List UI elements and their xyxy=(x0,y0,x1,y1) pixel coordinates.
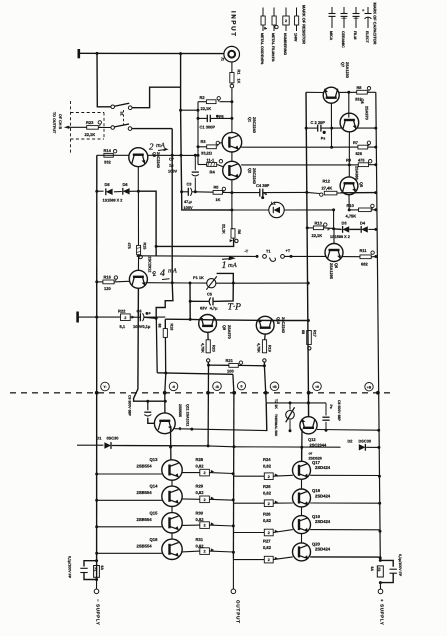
probe P5 on C1 xyxy=(216,115,219,118)
wire Q3 emitter column xyxy=(137,167,139,192)
svg-text:METAL OXIDE±5%: METAL OXIDE±5% xyxy=(260,33,264,65)
svg-text:or: or xyxy=(309,451,313,455)
chassis tick terminal xyxy=(78,49,81,58)
svg-text:R11: R11 xyxy=(360,248,368,253)
svg-text:2SA970: 2SA970 xyxy=(227,325,231,339)
svg-text:R7: R7 xyxy=(353,140,358,145)
wire base row y155 xyxy=(104,154,129,156)
svg-text:+T: +T xyxy=(286,248,291,253)
svg-text:2SD424: 2SD424 xyxy=(315,493,331,498)
trimmer P1 1K xyxy=(207,279,216,288)
resistor R17 68 xyxy=(307,331,312,345)
svg-text:D2: D2 xyxy=(348,439,354,444)
rail left Y- xyxy=(96,155,98,580)
wire Q2 emitter down xyxy=(231,180,233,229)
svg-text:P5: P5 xyxy=(219,115,224,119)
svg-text:C7: C7 xyxy=(169,157,174,162)
svg-text:D1: D1 xyxy=(97,436,103,441)
wire P1 wiper link xyxy=(217,273,234,283)
transistor Q3 2SC2240 xyxy=(129,148,148,167)
resistor R3 33.2 xyxy=(198,146,207,148)
resistor R4 xyxy=(198,164,207,166)
wire Q12 emitter row to rail B xyxy=(317,429,379,432)
svg-text:6A: 6A xyxy=(100,566,104,571)
node O xyxy=(232,391,236,395)
svg-text:R14: R14 xyxy=(104,148,112,153)
svg-text:R4: R4 xyxy=(210,170,216,175)
wire R2 to input column xyxy=(220,101,232,103)
switch S1 upper pole xyxy=(111,105,115,109)
transistor Q16 2SB554 xyxy=(162,539,182,559)
svg-text:1S1588 X 2: 1S1588 X 2 xyxy=(103,199,123,203)
svg-text:2: 2 xyxy=(204,524,206,528)
wire Q16 base xyxy=(97,552,162,554)
wire P1 row xyxy=(190,282,207,284)
dashed box remote connection xyxy=(70,101,72,155)
diode D1 DSC30 xyxy=(104,442,111,448)
svg-text:R17: R17 xyxy=(313,330,317,337)
wire Q19 to rail B xyxy=(273,530,293,533)
rail output O xyxy=(232,393,235,559)
svg-text:Q3: Q3 xyxy=(152,152,156,157)
svg-text:CERAMIC: CERAMIC xyxy=(341,31,345,48)
svg-text:R25: R25 xyxy=(263,484,271,489)
probe circle below R15 xyxy=(139,255,142,258)
wire switch upper to input rail xyxy=(132,87,181,108)
svg-text:R1: R1 xyxy=(236,70,240,75)
wire R3 to Q1 base xyxy=(219,142,222,145)
wire RV corner to O node xyxy=(233,374,234,393)
svg-text:NUMBERING: NUMBERING xyxy=(283,33,287,55)
svg-text:4,75K: 4,75K xyxy=(200,343,204,353)
svg-text:2SC2240: 2SC2240 xyxy=(281,317,285,333)
svg-text:FILM: FILM xyxy=(353,31,357,39)
svg-text:1/4W: 1/4W xyxy=(294,33,298,42)
svg-text:Q16: Q16 xyxy=(150,537,159,542)
svg-text:Y-: Y- xyxy=(103,385,106,389)
svg-text:Ps: Ps xyxy=(321,137,326,141)
svg-text:2SC2240: 2SC2240 xyxy=(252,117,256,133)
legend capacitor symbol elect xyxy=(367,7,369,14)
resistor R9 475 xyxy=(349,164,358,166)
svg-text:-T: -T xyxy=(245,249,249,254)
transistor Q5 2SA966 xyxy=(340,177,358,195)
terminal minus supply xyxy=(94,589,99,594)
svg-text:C 2 20P: C 2 20P xyxy=(311,120,326,125)
wire D6 to Q3 column xyxy=(130,190,139,192)
svg-text:63V: 63V xyxy=(200,306,207,311)
wire Q7 base column xyxy=(330,103,332,147)
wire Q6 to R11 xyxy=(342,256,360,258)
svg-text:R18: R18 xyxy=(169,324,173,331)
svg-text:R3: R3 xyxy=(201,139,207,144)
svg-text:C8 500V 68P: C8 500V 68P xyxy=(337,400,341,421)
wire R4 to Q2 base xyxy=(217,165,223,167)
svg-text:Q6: Q6 xyxy=(334,263,338,268)
svg-text:Q9: Q9 xyxy=(222,325,226,330)
legend capacitor symbol mica xyxy=(331,7,333,14)
svg-text:OF CH B: OF CH B xyxy=(58,114,62,129)
svg-text:2SB554: 2SB554 xyxy=(137,517,153,522)
svg-text:100: 100 xyxy=(227,369,234,374)
transistor Q19 2SD424 xyxy=(293,516,311,534)
svg-text:2: 2 xyxy=(268,558,270,562)
svg-text:6A: 6A xyxy=(370,567,374,572)
wire left bank column xyxy=(171,460,173,480)
wire Q14 base xyxy=(97,499,162,501)
wire -0 node drop xyxy=(165,373,166,393)
svg-text:R30: R30 xyxy=(196,510,204,515)
svg-text:INPUT: INPUT xyxy=(230,11,237,38)
junction top wire to input rail xyxy=(179,52,182,55)
svg-text:R19: R19 xyxy=(268,345,272,352)
svg-text:Ps: Ps xyxy=(329,405,333,409)
svg-text:C1 300P: C1 300P xyxy=(200,125,216,130)
wire top input return xyxy=(80,52,224,54)
svg-text:11-1: 11-1 xyxy=(207,157,216,162)
svg-text:+B: +B xyxy=(367,385,372,389)
svg-text:R6: R6 xyxy=(237,230,241,235)
wire R2 row xyxy=(198,101,207,103)
junction C1 row xyxy=(230,117,233,120)
rail switch bias column xyxy=(171,129,173,283)
capacitor C9 68P 500V xyxy=(147,401,149,410)
transistor Q1 2SC2240 xyxy=(222,132,242,152)
svg-text:Q11 2SA1011: Q11 2SA1011 xyxy=(186,404,190,426)
svg-text:68: 68 xyxy=(158,324,162,328)
svg-text:2: 2 xyxy=(124,316,126,320)
svg-text:P1 1K: P1 1K xyxy=(193,275,204,280)
svg-text:R29: R29 xyxy=(196,484,204,489)
transistor Q8 2SA970 xyxy=(340,113,359,132)
wire P1 row to rail A xyxy=(216,282,308,284)
svg-text:2SC2912: 2SC2912 xyxy=(148,257,152,273)
node +B right xyxy=(376,391,380,395)
svg-text:22,1K: 22,1K xyxy=(312,233,323,238)
svg-text:825: 825 xyxy=(356,151,363,156)
svg-text:475: 475 xyxy=(358,158,365,163)
svg-text:L1: L1 xyxy=(271,201,276,206)
svg-text:D6: D6 xyxy=(123,182,129,187)
wire Q8 base column xyxy=(348,92,350,117)
svg-text:MARK OF RESISTOR: MARK OF RESISTOR xyxy=(302,5,307,44)
svg-text:R20: R20 xyxy=(211,345,215,352)
svg-text:22,1K: 22,1K xyxy=(201,106,212,111)
transistor Q20 2SD424 xyxy=(293,543,311,561)
terminal plus supply xyxy=(378,589,383,594)
svg-text:120: 120 xyxy=(104,286,111,291)
wire F2 to terminal xyxy=(379,583,381,590)
svg-text:C3: C3 xyxy=(187,182,193,187)
channel separator dashed xyxy=(10,392,393,394)
svg-text:MICA: MICA xyxy=(329,31,333,41)
svg-text:R16: R16 xyxy=(104,275,112,280)
resistor R1 1K xyxy=(230,73,234,83)
svg-text:Q7: Q7 xyxy=(341,62,345,67)
svg-text:J1: J1 xyxy=(221,57,225,61)
svg-text:0,82: 0,82 xyxy=(196,490,205,495)
resistor R11 682 xyxy=(360,255,371,259)
svg-text:33,2Ω: 33,2Ω xyxy=(201,150,213,155)
svg-text:R9: R9 xyxy=(346,158,352,163)
wire R15 to Q4 xyxy=(137,255,139,270)
node +0 xyxy=(307,391,311,395)
svg-text:R2: R2 xyxy=(200,95,206,100)
transistor Q18 2SD424 xyxy=(293,489,311,507)
svg-text:4,75K: 4,75K xyxy=(346,214,357,219)
probe circle below R1 xyxy=(231,83,233,84)
legend resistor symbol 1/4W xyxy=(296,8,298,17)
svg-text:R15: R15 xyxy=(143,243,147,250)
svg-text:-B: -B xyxy=(215,385,219,389)
wire right bank column xyxy=(301,447,303,461)
svg-text:22,1K: 22,1K xyxy=(85,132,96,137)
wire bridge input rail to feedback rail xyxy=(181,109,198,111)
svg-text:68: 68 xyxy=(301,330,305,334)
svg-text:0,82: 0,82 xyxy=(263,545,272,550)
svg-text:100V: 100V xyxy=(168,169,177,174)
resistor R15 475 xyxy=(137,191,139,245)
wire Q17 to rail B xyxy=(273,474,293,477)
wire R1 to Q1 xyxy=(231,88,233,133)
svg-text:0,1μ/100V FP: 0,1μ/100V FP xyxy=(68,556,72,579)
svg-text:475: 475 xyxy=(127,243,131,249)
rail +B node xyxy=(264,366,266,403)
svg-text:+B: +B xyxy=(272,385,277,389)
wire L1 to R10 row xyxy=(284,209,333,211)
wire Q20 to rail B xyxy=(273,557,293,560)
wire Q5 emitter right xyxy=(341,192,376,194)
wire R12 to Q5 xyxy=(337,192,341,194)
switch link dashed xyxy=(123,110,125,125)
legend resistor symbol metal-film xyxy=(273,8,275,17)
ground bar xyxy=(76,312,79,323)
svg-text:R28: R28 xyxy=(196,457,204,462)
wire Q11 top column xyxy=(164,393,166,413)
wire R30 to output rail xyxy=(209,524,233,527)
svg-text:0,82: 0,82 xyxy=(196,464,205,469)
wire Q9 row xyxy=(165,319,308,320)
svg-text:Q8: Q8 xyxy=(360,99,364,104)
svg-text:THERMAL 58K: THERMAL 58K xyxy=(274,414,278,437)
wire Q5 bottom to R10 row xyxy=(348,195,350,210)
svg-text:MARK OF CAPACITOR: MARK OF CAPACITOR xyxy=(373,3,378,45)
svg-text:2SC2240: 2SC2240 xyxy=(156,152,160,168)
svg-text:T·P: T·P xyxy=(228,303,242,313)
wire switch lower to bias column xyxy=(132,128,172,130)
transistor Q6 2SA1295 xyxy=(325,244,343,262)
svg-text:682: 682 xyxy=(361,262,368,267)
svg-text:R31: R31 xyxy=(196,537,204,542)
svg-text:27,4K: 27,4K xyxy=(322,186,333,191)
wire +B to T2 box xyxy=(265,403,268,431)
svg-text:0SC30: 0SC30 xyxy=(107,436,119,441)
svg-text:R12: R12 xyxy=(323,179,331,184)
wire R7 row Q1 collector xyxy=(241,146,306,148)
svg-text:METAL FILM±1%: METAL FILM±1% xyxy=(271,33,275,62)
terminal output xyxy=(231,589,236,594)
svg-text:2SA966: 2SA966 xyxy=(355,166,359,180)
resistor R13 22.1K xyxy=(306,226,309,229)
svg-text:2: 2 xyxy=(268,475,270,479)
svg-text:2SD424: 2SD424 xyxy=(315,547,331,552)
svg-text:2SB554: 2SB554 xyxy=(137,464,153,469)
node -0 xyxy=(163,391,167,395)
legend resistor symbol numbering xyxy=(285,8,287,17)
resistor R19 4.75K xyxy=(264,334,267,340)
wire bias column down xyxy=(155,318,158,373)
wire jack to R1 xyxy=(231,62,233,73)
resistor R6 22.1K xyxy=(231,229,235,238)
inductor L1 xyxy=(232,209,269,211)
probe P5 on C2 xyxy=(323,131,326,134)
transistor Q15 2SB554 xyxy=(162,513,182,533)
node Y- xyxy=(95,391,99,395)
wire ground row xyxy=(78,316,121,318)
svg-text:2: 2 xyxy=(204,498,206,502)
svg-text:0,82: 0,82 xyxy=(263,464,272,469)
svg-text:100V: 100V xyxy=(184,205,193,210)
transistor Q10 2SC2240 xyxy=(256,316,274,334)
svg-text:0,1μ/100V FP: 0,1μ/100V FP xyxy=(398,554,402,577)
resistor R21 100 xyxy=(207,364,210,367)
resistor R10 4.75K xyxy=(332,208,335,211)
svg-text:mA: mA xyxy=(228,262,237,269)
svg-text:2SB554: 2SB554 xyxy=(137,544,153,549)
svg-text:2: 2 xyxy=(204,471,206,475)
svg-text:1: 1 xyxy=(222,260,227,271)
thermal breaker T1 xyxy=(256,255,259,258)
resistor R20 4.75K xyxy=(207,332,209,340)
input rail upper xyxy=(180,54,182,111)
junction R2 row xyxy=(230,100,233,103)
capacitor C8 68P 500V xyxy=(325,403,327,416)
probe circle R6 bottom xyxy=(230,239,234,242)
svg-text:S1: S1 xyxy=(119,112,123,116)
wire R23 arrow xyxy=(64,126,70,129)
transistor Q9 2SA970 xyxy=(199,315,217,333)
wire output to terminal xyxy=(232,559,234,589)
resistor R8 332 xyxy=(357,90,368,94)
resistor R16 120 xyxy=(95,280,98,283)
svg-text:2: 2 xyxy=(268,502,270,506)
transistor Q11 2SA1011 xyxy=(154,413,175,434)
transistor Q14 2SB554 xyxy=(162,486,182,506)
wire rail A to Q12 xyxy=(308,403,310,417)
svg-text:D5: D5 xyxy=(105,182,111,187)
input rail lower to L1 row xyxy=(181,110,232,210)
svg-text:C4 39P: C4 39P xyxy=(256,183,270,188)
wire R8 row xyxy=(306,91,323,93)
svg-text:332: 332 xyxy=(104,159,111,164)
svg-text:4: 4 xyxy=(160,268,165,279)
transistor Q17 2SD424 xyxy=(293,461,311,479)
svg-text:2: 2 xyxy=(268,531,270,535)
svg-text:R24: R24 xyxy=(263,457,271,462)
wire R5 to node xyxy=(223,191,232,193)
svg-text:1μ: 1μ xyxy=(169,163,174,168)
resistor R2 22.1K xyxy=(206,100,216,104)
svg-text:R21: R21 xyxy=(226,358,234,363)
svg-text:22,1K: 22,1K xyxy=(221,224,225,234)
svg-text:2SA1295: 2SA1295 xyxy=(329,263,333,279)
wire C6 to bias column xyxy=(144,317,156,318)
svg-text:100V0,1μ: 100V0,1μ xyxy=(133,324,151,329)
wire F1 to terminal xyxy=(96,580,98,590)
capacitor C4 39P xyxy=(232,192,260,194)
svg-text:0,82: 0,82 xyxy=(196,517,205,522)
svg-text:2SA970: 2SA970 xyxy=(364,106,368,120)
svg-text:Q15: Q15 xyxy=(150,511,159,516)
wire output row RV xyxy=(157,373,233,375)
legend resistor symbol metal-oxide xyxy=(262,8,264,17)
wire R9 row Q2 collector xyxy=(241,164,349,166)
svg-text:C5: C5 xyxy=(207,292,213,297)
wire staircase P1 row to C6 corner xyxy=(156,283,173,319)
rail B right xyxy=(376,92,381,560)
svg-text:+0: +0 xyxy=(315,385,319,389)
svg-text:C9 500V 68P: C9 500V 68P xyxy=(127,395,131,416)
svg-text:R26: R26 xyxy=(263,511,271,516)
svg-text:1K: 1K xyxy=(216,197,221,202)
transistor Q2 2SC2240 xyxy=(223,161,241,179)
svg-text:Q1: Q1 xyxy=(248,117,252,122)
svg-text:Q5: Q5 xyxy=(359,182,363,187)
wire jog D-row to R6 bottom xyxy=(138,191,233,246)
capacitor C1 300P xyxy=(198,117,207,119)
svg-text:R22: R22 xyxy=(118,309,126,314)
wire R8 to right rail xyxy=(367,91,376,93)
svg-text:T2 1K: T2 1K xyxy=(274,399,278,409)
diode D6 1S1588 xyxy=(114,191,122,193)
svg-text:4,7μ: 4,7μ xyxy=(210,306,218,311)
rail R2-C1-R3-R4 left xyxy=(197,102,199,165)
wire R10 column down xyxy=(333,210,335,229)
svg-text:R13: R13 xyxy=(315,221,323,226)
rail -B node xyxy=(207,365,209,446)
wire Q11 emitter column to Q13 xyxy=(170,429,172,460)
capacitor C5 4.7U 63V xyxy=(189,283,191,319)
svg-text:0,82: 0,82 xyxy=(263,491,272,496)
wire R28 to output rail xyxy=(209,472,233,475)
resistor R23 22.1K xyxy=(87,126,99,130)
node -B xyxy=(206,391,210,395)
svg-text:1S1588 X 2: 1S1588 X 2 xyxy=(330,235,350,239)
svg-text:Q4: Q4 xyxy=(152,271,156,277)
wire Q15 base xyxy=(97,526,162,528)
svg-text:R27: R27 xyxy=(263,538,271,543)
wire Q18 to rail B xyxy=(273,502,293,504)
svg-text:47,μ: 47,μ xyxy=(184,199,192,204)
switch S1 lower pole xyxy=(111,126,115,130)
resistor R12 27.4K xyxy=(305,191,308,194)
svg-text:− SUPPLY: − SUPPLY xyxy=(95,599,100,626)
capacitor C7 1U 100V xyxy=(194,155,196,170)
svg-text:2SC2240: 2SC2240 xyxy=(252,168,256,184)
wire T2 box top xyxy=(266,402,326,404)
wire T1 to Q6 xyxy=(284,255,326,257)
svg-text:D4: D4 xyxy=(360,220,366,225)
svg-text:2SD424: 2SD424 xyxy=(315,519,331,524)
svg-text:R10: R10 xyxy=(347,203,355,208)
wire Q12 base feed xyxy=(301,429,303,462)
transistor Q7 2SA1230 xyxy=(323,87,339,103)
svg-text:F2: F2 xyxy=(377,568,381,572)
capacitor C2 20P xyxy=(306,127,318,129)
svg-text:2: 2 xyxy=(149,142,154,152)
wire T1 row left xyxy=(139,255,258,258)
transistor Q13 2SB554 xyxy=(162,460,182,480)
